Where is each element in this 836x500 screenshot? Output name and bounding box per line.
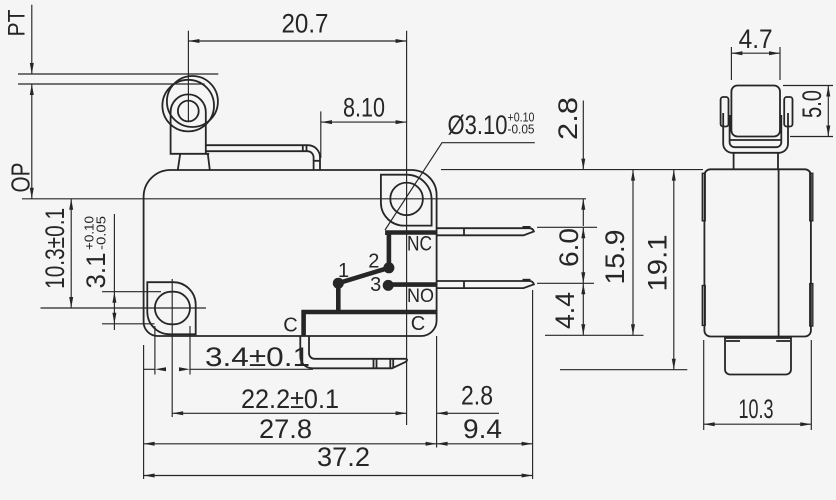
common wire horizontal — [302, 310, 437, 315]
extension side body right — [810, 340, 812, 430]
side view right clip — [784, 97, 792, 127]
lower-left oblong hole — [155, 292, 190, 325]
svg-text:4.7: 4.7 — [739, 24, 773, 54]
side view roller — [731, 86, 780, 137]
side view lever bracket inner — [730, 115, 782, 147]
lever pivot pin hole — [178, 101, 199, 122]
svg-text:NO: NO — [407, 286, 434, 307]
dimension 20.7 line — [188, 40, 406, 42]
svg-text:NC: NC — [407, 233, 432, 256]
svg-text:2: 2 — [368, 251, 379, 273]
side view bracket slot line — [730, 139, 782, 141]
svg-text:27.8: 27.8 — [259, 414, 312, 444]
svg-text:-0.05: -0.05 — [508, 123, 535, 137]
free position line — [18, 73, 218, 75]
diameter leader line — [385, 143, 535, 230]
dimension 22.2 line — [172, 412, 406, 414]
svg-text:3.1: 3.1 — [81, 253, 111, 289]
dimension 9.4 line — [437, 443, 533, 445]
OP dimension line — [31, 84, 33, 199]
top-right hole vertical centerline — [406, 31, 408, 425]
side view left tab lower — [702, 286, 705, 326]
svg-text:2.8: 2.8 — [553, 97, 583, 140]
side view lever bracket outer — [723, 113, 788, 153]
svg-text:3: 3 — [370, 274, 381, 296]
lower-left hole horizontal centerline — [41, 307, 207, 309]
extension NC blade — [537, 226, 597, 228]
extension hole right — [189, 326, 191, 375]
common terminal tick marks — [373, 359, 375, 369]
dimension 2.8 bottom line — [437, 412, 499, 414]
svg-text:C: C — [283, 315, 297, 337]
NO terminal blade — [437, 281, 534, 288]
NC terminal blade — [437, 228, 534, 235]
top extension line — [441, 169, 703, 171]
dimension 5.0 line — [827, 86, 829, 137]
svg-text:3.4±0.1: 3.4±0.1 — [205, 342, 310, 372]
extension blade tips — [532, 290, 534, 479]
extension roller top — [783, 85, 833, 87]
extension NO blade — [537, 282, 594, 284]
side view base ledge lines — [726, 340, 740, 342]
extension line lever tip — [320, 111, 322, 158]
switch body outline — [144, 170, 437, 336]
svg-text:10.3: 10.3 — [739, 394, 774, 424]
top-right mounting hole — [390, 183, 423, 216]
svg-text:8.10: 8.10 — [343, 92, 385, 122]
extension hole left — [154, 326, 156, 375]
svg-text:Ø3.10: Ø3.10 — [448, 110, 508, 140]
hole centerline / OP line — [22, 198, 586, 200]
svg-text:10.3±0.1: 10.3±0.1 — [40, 208, 70, 289]
roller circle outer — [167, 76, 218, 127]
dimension 3.4 line — [144, 368, 155, 370]
side view stem — [734, 153, 778, 170]
svg-text:20.7: 20.7 — [282, 8, 329, 38]
side view right tab lower — [810, 284, 813, 326]
wire node1 down — [336, 283, 341, 312]
lever fork — [171, 94, 206, 153]
extension line roller center — [187, 31, 189, 122]
extension body bottom — [545, 334, 644, 336]
svg-text:4.4: 4.4 — [550, 292, 580, 329]
side view left tab upper — [702, 173, 705, 221]
dimension 15.9 line — [632, 170, 634, 336]
svg-text:2.8: 2.8 — [461, 381, 493, 411]
dimension 10.3 left line — [70, 199, 72, 308]
svg-text:1: 1 — [338, 260, 349, 282]
lever tick marks — [302, 145, 304, 151]
dimension 8.10 line — [321, 121, 407, 123]
svg-text:6.0: 6.0 — [554, 228, 584, 267]
side view internal edge — [778, 169, 780, 336]
dimension 37.2 line — [144, 475, 533, 477]
common wire down to terminal — [301, 310, 306, 336]
node 3 — [383, 280, 394, 291]
lever tip joint line — [314, 160, 320, 162]
extension hole top — [102, 291, 161, 293]
switch blade 1-2 — [338, 268, 389, 283]
svg-text:5.0: 5.0 — [797, 90, 827, 118]
lever pivot post — [178, 154, 210, 170]
extension body right edge — [436, 336, 438, 448]
common terminal lead — [300, 336, 407, 368]
node 1 — [333, 278, 344, 289]
wire node2 to NC — [387, 233, 392, 268]
dimension 27.8 line — [144, 443, 437, 445]
lever arm bottom edge — [206, 151, 314, 170]
svg-text:-0.05: -0.05 — [95, 216, 109, 250]
dimension 4.7 line — [731, 52, 780, 54]
dimension 3.1 line — [113, 214, 115, 330]
dimension 6.0 line — [582, 227, 584, 283]
lower-left hole vertical centerline — [171, 279, 173, 417]
node 2 — [383, 262, 394, 273]
side view right tab upper — [810, 173, 813, 221]
extension roller left — [730, 47, 732, 80]
side view left clip — [721, 97, 729, 127]
side view bottom base block — [725, 338, 791, 375]
extension hole bottom — [102, 323, 155, 325]
extension side body left — [703, 340, 705, 430]
dimension 19.1 line — [673, 170, 675, 370]
top-right mounting hole boss — [381, 175, 432, 226]
svg-text:22.2±0.1: 22.2±0.1 — [241, 384, 339, 414]
extension body left edge — [143, 345, 145, 479]
wire node3 to NO — [388, 282, 436, 287]
svg-text:PT: PT — [4, 9, 31, 36]
extension roller right — [779, 47, 781, 80]
svg-text:9.4: 9.4 — [463, 414, 502, 444]
svg-text:19.1: 19.1 — [643, 235, 673, 292]
dimension 10.3 side line — [704, 423, 812, 425]
side view body — [704, 169, 811, 336]
contact NC wire — [387, 233, 436, 236]
dimension 2.8 vertical arrows — [582, 101, 584, 170]
roller circle offset — [162, 80, 214, 132]
dimension 4.4 line — [582, 283, 584, 335]
svg-text:15.9: 15.9 — [600, 230, 630, 285]
svg-text:C: C — [411, 313, 425, 335]
svg-text:37.2: 37.2 — [317, 442, 370, 472]
lower-left mounting hole boss — [147, 282, 195, 334]
operating position line — [18, 83, 205, 85]
extension roller bottom — [790, 136, 833, 138]
extension base bottom — [560, 369, 687, 371]
PT dimension line — [31, 5, 33, 74]
lever arm top edge — [206, 145, 320, 170]
